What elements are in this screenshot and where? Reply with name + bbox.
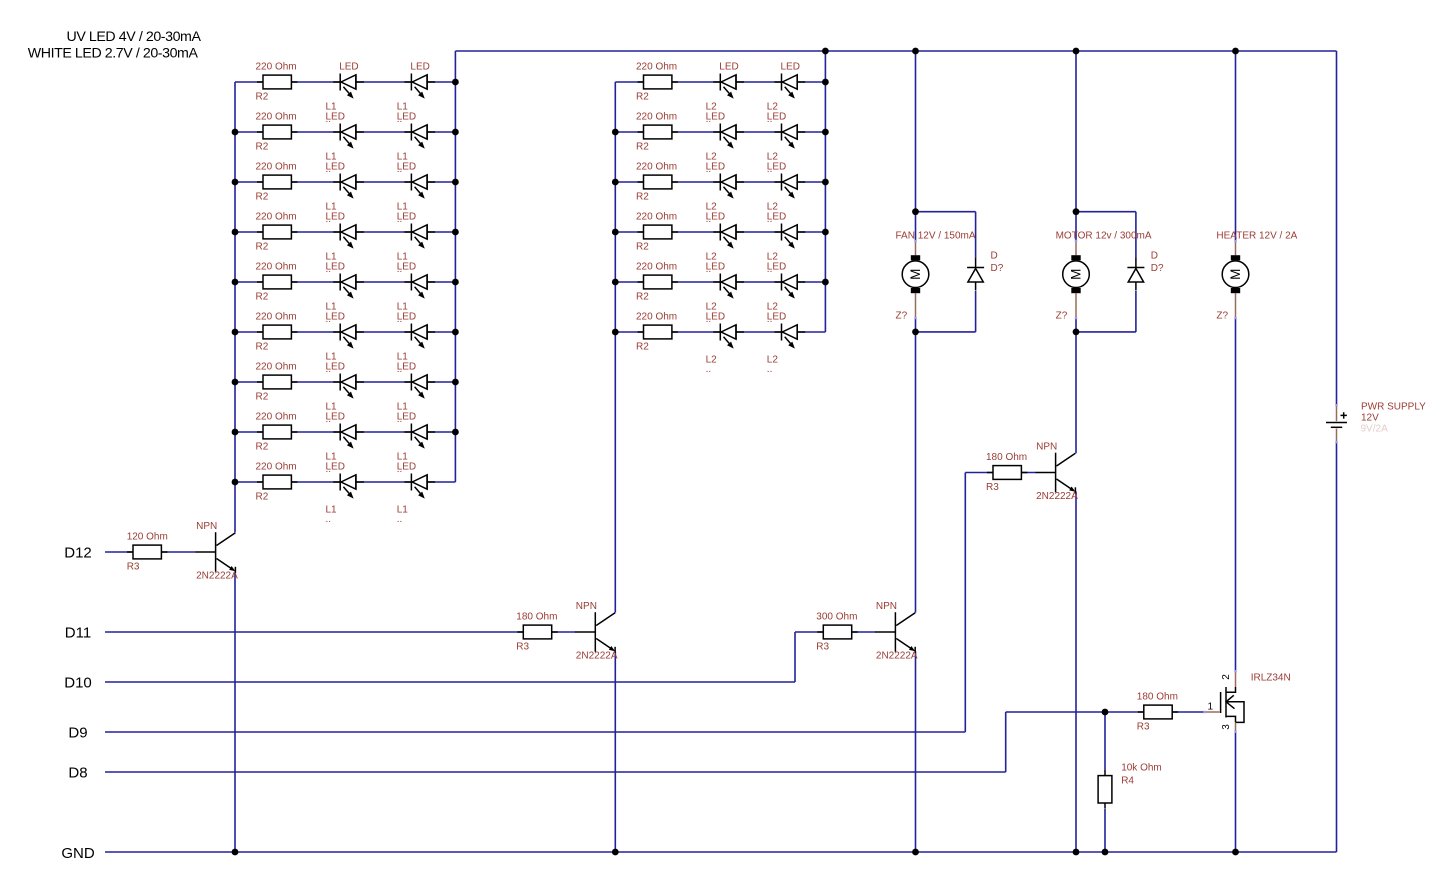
- svg-text:MOTOR 12v / 300mA: MOTOR 12v / 300mA: [1056, 231, 1152, 242]
- svg-text:..: ..: [706, 364, 712, 375]
- svg-text:R2: R2: [636, 191, 649, 202]
- svg-text:WHITE LED 2.7V / 20-30mA: WHITE LED 2.7V / 20-30mA: [28, 45, 199, 61]
- svg-text:D?: D?: [1151, 263, 1164, 274]
- svg-text:R3: R3: [127, 561, 140, 572]
- svg-text:180 Ohm: 180 Ohm: [1137, 691, 1178, 702]
- svg-text:..: ..: [706, 314, 712, 325]
- svg-text:D: D: [1151, 251, 1158, 262]
- svg-text:..: ..: [397, 514, 403, 525]
- svg-text:R2: R2: [636, 291, 649, 302]
- svg-text:180 Ohm: 180 Ohm: [516, 611, 557, 622]
- svg-text:R4: R4: [1121, 776, 1134, 787]
- svg-text:220 Ohm: 220 Ohm: [256, 461, 297, 472]
- svg-text:NPN: NPN: [196, 521, 217, 532]
- svg-text:R2: R2: [256, 241, 269, 252]
- svg-text:Z?: Z?: [1216, 311, 1228, 322]
- svg-text:IRLZ34N: IRLZ34N: [1251, 673, 1291, 684]
- svg-text:220 Ohm: 220 Ohm: [256, 311, 297, 322]
- svg-text:R2: R2: [636, 241, 649, 252]
- svg-text:D11: D11: [65, 625, 91, 642]
- svg-text:D8: D8: [68, 765, 87, 782]
- svg-text:R2: R2: [636, 91, 649, 102]
- svg-text:R2: R2: [256, 141, 269, 152]
- svg-text:2N2222A: 2N2222A: [576, 651, 618, 662]
- svg-text:12V: 12V: [1361, 413, 1379, 424]
- svg-text:..: ..: [397, 364, 403, 375]
- svg-text:LED: LED: [781, 62, 800, 73]
- svg-text:..: ..: [326, 464, 332, 475]
- svg-text:..: ..: [326, 164, 332, 175]
- svg-text:GND: GND: [61, 845, 95, 862]
- svg-text:..: ..: [767, 314, 773, 325]
- svg-text:D12: D12: [64, 545, 92, 562]
- svg-text:FAN 12V / 150mA: FAN 12V / 150mA: [896, 231, 976, 242]
- svg-text:220 Ohm: 220 Ohm: [256, 61, 297, 72]
- svg-text:220 Ohm: 220 Ohm: [256, 161, 297, 172]
- svg-text:NPN: NPN: [576, 601, 597, 612]
- svg-text:R2: R2: [256, 191, 269, 202]
- svg-text:..: ..: [326, 264, 332, 275]
- svg-text:R3: R3: [986, 482, 999, 493]
- svg-text:220 Ohm: 220 Ohm: [256, 211, 297, 222]
- svg-text:220 Ohm: 220 Ohm: [636, 161, 677, 172]
- svg-text:220 Ohm: 220 Ohm: [636, 311, 677, 322]
- svg-text:180 Ohm: 180 Ohm: [986, 452, 1027, 463]
- svg-text:R2: R2: [636, 341, 649, 352]
- svg-text:..: ..: [767, 164, 773, 175]
- svg-text:R3: R3: [1137, 721, 1150, 732]
- svg-text:R3: R3: [516, 641, 529, 652]
- svg-text:..: ..: [326, 314, 332, 325]
- svg-text:NPN: NPN: [1036, 442, 1057, 453]
- svg-text:..: ..: [706, 214, 712, 225]
- svg-text:..: ..: [397, 214, 403, 225]
- svg-text:300 Ohm: 300 Ohm: [816, 611, 857, 622]
- svg-text:NPN: NPN: [876, 601, 897, 612]
- svg-text:R2: R2: [256, 441, 269, 452]
- svg-text:..: ..: [397, 164, 403, 175]
- svg-text:UV LED 4V / 20-30mA: UV LED 4V / 20-30mA: [67, 29, 202, 45]
- svg-text:..: ..: [326, 514, 332, 525]
- svg-text:220 Ohm: 220 Ohm: [256, 361, 297, 372]
- svg-text:HEATER 12V / 2A: HEATER 12V / 2A: [1216, 231, 1297, 242]
- svg-text:220 Ohm: 220 Ohm: [256, 111, 297, 122]
- svg-text:R3: R3: [816, 641, 829, 652]
- svg-text:..: ..: [767, 214, 773, 225]
- svg-text:220 Ohm: 220 Ohm: [636, 111, 677, 122]
- svg-text:120 Ohm: 120 Ohm: [127, 531, 168, 542]
- svg-text:..: ..: [397, 414, 403, 425]
- svg-text:2N2222A: 2N2222A: [876, 651, 918, 662]
- svg-text:..: ..: [767, 264, 773, 275]
- svg-text:..: ..: [706, 114, 712, 125]
- svg-text:..: ..: [326, 414, 332, 425]
- svg-text:3: 3: [1221, 724, 1232, 730]
- svg-text:2N2222A: 2N2222A: [1036, 491, 1078, 502]
- svg-text:..: ..: [706, 164, 712, 175]
- svg-text:10k Ohm: 10k Ohm: [1121, 763, 1162, 774]
- svg-text:220 Ohm: 220 Ohm: [636, 211, 677, 222]
- svg-text:..: ..: [767, 364, 773, 375]
- svg-text:220 Ohm: 220 Ohm: [636, 61, 677, 72]
- svg-text:R2: R2: [256, 341, 269, 352]
- svg-text:LED: LED: [410, 62, 429, 73]
- svg-text:..: ..: [767, 114, 773, 125]
- svg-text:1: 1: [1208, 702, 1214, 713]
- svg-text:..: ..: [706, 264, 712, 275]
- svg-text:220 Ohm: 220 Ohm: [256, 411, 297, 422]
- svg-text:PWR SUPPLY: PWR SUPPLY: [1361, 402, 1426, 413]
- svg-text:R2: R2: [256, 91, 269, 102]
- svg-text:R2: R2: [256, 391, 269, 402]
- svg-text:2: 2: [1221, 674, 1232, 680]
- svg-text:2N2222A: 2N2222A: [196, 571, 238, 582]
- svg-text:D?: D?: [991, 263, 1004, 274]
- svg-text:D10: D10: [64, 675, 92, 692]
- svg-text:R2: R2: [256, 491, 269, 502]
- svg-text:..: ..: [397, 114, 403, 125]
- svg-text:LED: LED: [719, 62, 738, 73]
- svg-text:..: ..: [326, 114, 332, 125]
- svg-text:220 Ohm: 220 Ohm: [256, 261, 297, 272]
- svg-text:Z?: Z?: [1056, 311, 1068, 322]
- svg-text:..: ..: [326, 214, 332, 225]
- svg-text:R2: R2: [256, 291, 269, 302]
- svg-text:D9: D9: [68, 725, 87, 742]
- svg-text:R2: R2: [636, 141, 649, 152]
- svg-text:9V/2A: 9V/2A: [1361, 424, 1389, 435]
- svg-text:220 Ohm: 220 Ohm: [636, 261, 677, 272]
- svg-text:..: ..: [326, 364, 332, 375]
- svg-text:D: D: [991, 251, 998, 262]
- svg-text:Z?: Z?: [896, 311, 908, 322]
- svg-text:..: ..: [397, 314, 403, 325]
- svg-text:LED: LED: [339, 62, 358, 73]
- svg-text:..: ..: [397, 464, 403, 475]
- svg-text:..: ..: [397, 264, 403, 275]
